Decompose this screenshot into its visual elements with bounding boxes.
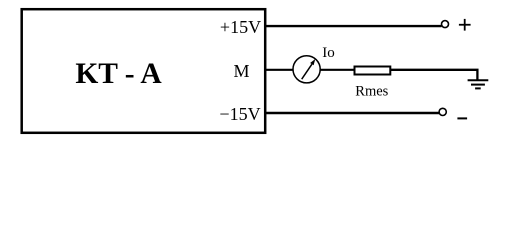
wire Rmes to ground	[390, 70, 477, 80]
ammeter needle	[302, 59, 316, 79]
svg-text:Io: Io	[322, 45, 335, 61]
label -	[457, 117, 467, 119]
wire ammeter to Rmes	[320, 69, 355, 71]
wire M pin to ammeter	[265, 69, 293, 71]
terminal - (open circle)	[439, 108, 446, 115]
svg-text:Rmes: Rmes	[355, 84, 388, 100]
svg-text:−15V: −15V	[219, 104, 260, 124]
ammeter U1 (moving-coil meter)	[293, 56, 320, 83]
resistor Rmes	[355, 67, 391, 75]
svg-text:M: M	[233, 61, 249, 81]
module box KT-A	[22, 9, 266, 133]
svg-text:+15V: +15V	[220, 17, 261, 37]
label +	[459, 19, 471, 31]
svg-text:KT - A: KT - A	[75, 58, 162, 90]
wire +15V rail	[265, 25, 441, 27]
ground	[468, 80, 489, 88]
wire -15V rail	[265, 112, 439, 114]
terminal + (open circle)	[442, 21, 449, 28]
